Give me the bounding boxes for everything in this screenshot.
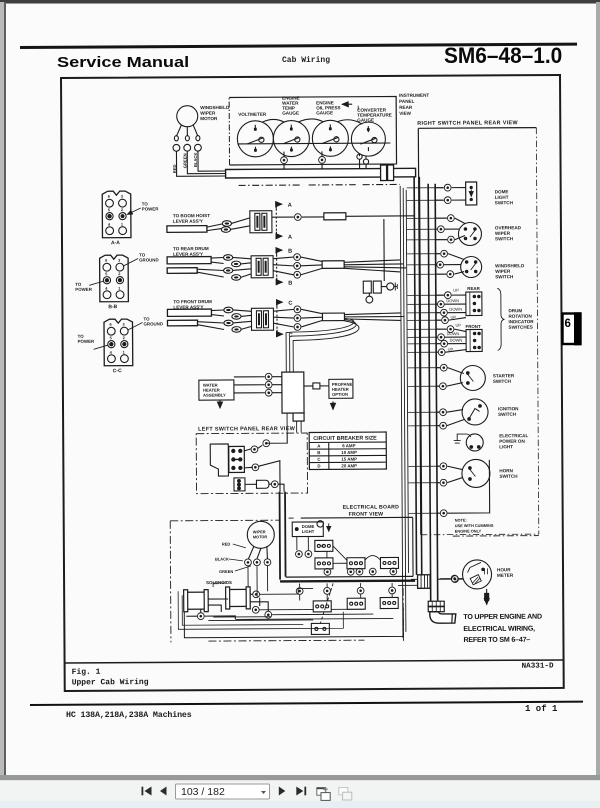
svg-text:6: 6 (565, 318, 571, 330)
svg-text:103 / 182: 103 / 182 (181, 786, 225, 798)
